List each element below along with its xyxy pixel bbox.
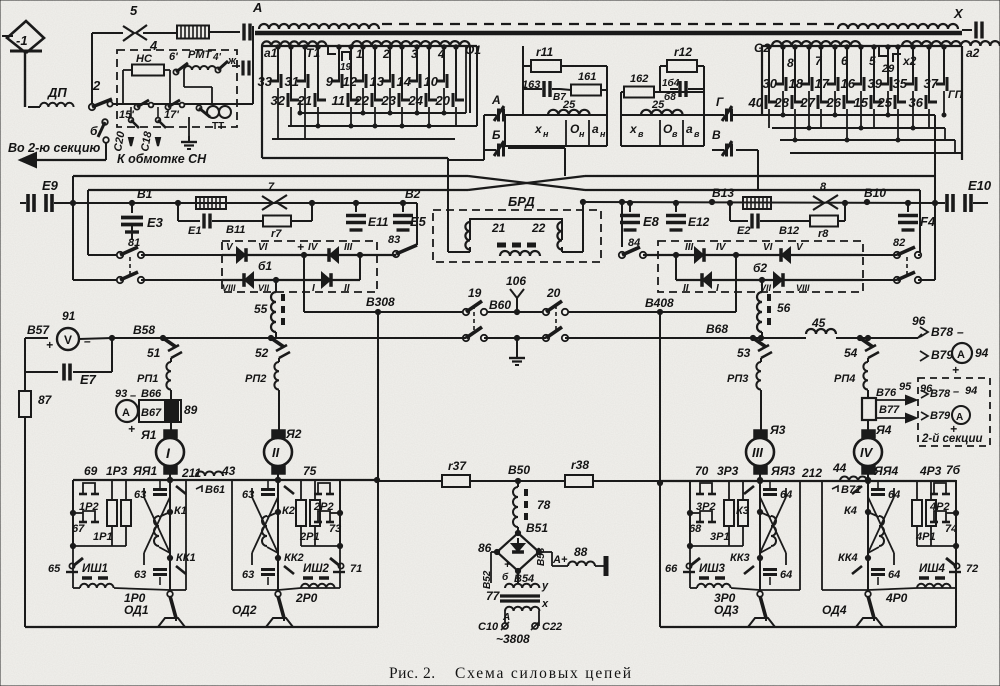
- svg-text:б1: б1: [258, 259, 272, 273]
- motor III brush bottom: [754, 466, 767, 474]
- svg-text:~3808: ~3808: [496, 632, 530, 646]
- mid line right В13-В10: [583, 202, 935, 203]
- winding х2-а2 coil: [902, 41, 1000, 46]
- svg-text:ОД3: ОД3: [714, 603, 739, 617]
- crossing wires center: [468, 176, 585, 190]
- svg-text:1Р3: 1Р3: [106, 464, 128, 478]
- svg-text:53: 53: [737, 346, 751, 360]
- switch 82 lower: [894, 277, 900, 283]
- switch 81 lower: [117, 277, 123, 283]
- diode IV-III: [330, 248, 338, 262]
- svg-text:54: 54: [844, 346, 858, 360]
- svg-text:1б4: 1б4: [662, 77, 680, 89]
- svg-text:КК4: КК4: [838, 552, 858, 564]
- wire bus to 81 lower: [73, 279, 117, 281]
- svg-text:Схема силовых цепей: Схема силовых цепей: [455, 665, 633, 682]
- wire В308 down: [377, 312, 379, 480]
- transformer 77 core: [500, 594, 540, 597]
- svg-text:93: 93: [115, 388, 127, 400]
- svg-text:7: 7: [268, 181, 275, 193]
- svg-text:В68: В68: [706, 322, 728, 336]
- svg-text:83: 83: [388, 234, 400, 246]
- svg-text:К3: К3: [736, 505, 749, 517]
- wire to A capacitor: [209, 31, 240, 33]
- svg-text:106: 106: [506, 274, 526, 288]
- inductor ДП: [28, 106, 40, 108]
- arrow В76: [876, 399, 916, 401]
- svg-text:ИШ4: ИШ4: [919, 563, 946, 575]
- svg-text:63: 63: [242, 489, 254, 501]
- wire switch В to bus right: [736, 149, 758, 151]
- dashed core 56: [767, 294, 771, 330]
- tap column 17/27: [834, 46, 836, 84]
- svg-text:20: 20: [435, 93, 451, 108]
- group 3 hook top: [700, 483, 712, 494]
- bus line second right: [585, 189, 920, 191]
- resistor (hatched) in 5-4 branch: [177, 26, 209, 39]
- svg-text:17: 17: [815, 76, 830, 91]
- tap collector lines: [300, 112, 466, 114]
- svg-text:В79: В79: [931, 348, 953, 362]
- svg-text:37: 37: [924, 76, 939, 91]
- bus trapezoid ОД1: [158, 618, 185, 627]
- svg-text:2-й секции: 2-й секции: [921, 433, 983, 445]
- switch 2: [89, 104, 95, 110]
- switch 53: [750, 335, 755, 340]
- right tap drops: [782, 91, 784, 115]
- svg-text:РП2: РП2: [245, 373, 266, 385]
- svg-text:11: 11: [332, 93, 346, 108]
- switch 72: [954, 563, 959, 568]
- group 2 coil К: [262, 516, 267, 546]
- svg-text:9: 9: [326, 74, 334, 89]
- svg-text:ЯЯ3: ЯЯ3: [770, 464, 795, 478]
- switch 52: [268, 335, 273, 340]
- svg-text:VI: VI: [763, 242, 773, 253]
- svg-text:Я4: Я4: [875, 423, 892, 437]
- svg-text:В58: В58: [133, 323, 155, 337]
- svg-text:r11: r11: [536, 45, 553, 59]
- svg-text:II: II: [272, 445, 280, 460]
- wire r12 down: [703, 66, 705, 115]
- tap column 33/32: [277, 46, 279, 81]
- node Б1 right: [357, 252, 362, 257]
- wire РП3 to Я3: [760, 390, 762, 432]
- arrester 8: [813, 196, 824, 210]
- svg-text:III: III: [752, 445, 763, 460]
- inductor 45: [761, 337, 806, 339]
- svg-text:r37: r37: [448, 459, 467, 473]
- winding 1-2-3-4 coil: [352, 41, 470, 46]
- svg-text:71: 71: [350, 563, 362, 575]
- svg-text:В10: В10: [864, 186, 886, 200]
- group 4 contact hook: [934, 511, 946, 522]
- ammeter В67 box: [139, 400, 181, 422]
- ammeter А box: [952, 406, 970, 424]
- svg-text:В51: В51: [526, 521, 548, 535]
- svg-text:К1: К1: [174, 505, 187, 517]
- svg-text:2: 2: [92, 78, 101, 93]
- svg-text:А: А: [252, 0, 262, 15]
- svg-text:А: А: [491, 93, 501, 107]
- shunt 89 dark: [165, 401, 178, 421]
- svg-text:х: х: [534, 122, 543, 136]
- group box 2 outer edge: [339, 480, 341, 546]
- svg-text:А: А: [956, 412, 963, 423]
- group 3 coil К: [771, 516, 776, 546]
- svg-text:х2: х2: [902, 54, 917, 68]
- ground В60: [516, 352, 518, 358]
- wire main through box: [112, 103, 253, 105]
- switch 54: [857, 335, 862, 340]
- upper switch bus y312: [304, 311, 466, 313]
- svg-text:ЯЯ4: ЯЯ4: [873, 464, 898, 478]
- БРД left winding 21: [465, 222, 470, 250]
- svg-text:н: н: [543, 129, 549, 139]
- coil РП1: [170, 358, 172, 362]
- wire top to r11: [522, 46, 524, 115]
- node + Б1: [301, 252, 306, 257]
- svg-text:В50: В50: [508, 463, 530, 477]
- capacitor F4: [905, 200, 910, 205]
- node БРД right: [619, 199, 624, 204]
- svg-text:В1: В1: [137, 187, 153, 201]
- diode V-VI: [237, 248, 245, 262]
- svg-text:3Р2: 3Р2: [696, 501, 716, 513]
- svg-text:69: 69: [84, 464, 98, 478]
- diode VIII-VII: [245, 273, 253, 287]
- link 20 dashed: [555, 305, 557, 333]
- wire r11 right down: [606, 66, 608, 115]
- svg-text:8: 8: [787, 56, 794, 70]
- wire БРД drop left: [582, 202, 584, 225]
- group 3 cross wires: [760, 497, 786, 553]
- svg-text:Я2: Я2: [285, 427, 302, 441]
- svg-text:у: у: [541, 580, 549, 592]
- resistor r8: [760, 220, 810, 222]
- disconnector 5-4: [92, 32, 123, 34]
- svg-text:+: +: [952, 363, 959, 377]
- wire Б2 plus down: [735, 255, 737, 312]
- tap column 14/24: [416, 46, 418, 81]
- switch 84: [619, 252, 625, 258]
- hatched resistor on В1 line: [196, 197, 226, 209]
- group box 3 outer edge: [689, 480, 691, 546]
- coil РМТ: [184, 66, 216, 70]
- wire В308 lower: [377, 480, 379, 627]
- svg-text:12: 12: [343, 74, 358, 89]
- switch 81 upper: [117, 252, 123, 258]
- svg-text:Х: Х: [953, 6, 964, 21]
- switch 66: [686, 563, 691, 568]
- svg-text:КК2: КК2: [284, 552, 304, 564]
- svg-text:а2: а2: [966, 46, 980, 60]
- tap column 9/11: [338, 46, 340, 81]
- svg-text:56: 56: [777, 301, 791, 315]
- capacitor С18: [157, 107, 159, 117]
- svg-text:Б: Б: [492, 128, 501, 142]
- resistor r37: [442, 475, 470, 487]
- svg-text:н: н: [600, 129, 606, 139]
- svg-text:2Р1: 2Р1: [299, 531, 320, 543]
- svg-text:IV: IV: [716, 242, 727, 253]
- svg-text:6': 6': [169, 51, 178, 63]
- right verticals from bus: [934, 176, 936, 280]
- resistor 87: [24, 372, 26, 391]
- svg-text:4Р3: 4Р3: [919, 464, 942, 478]
- svg-text:96: 96: [912, 314, 926, 328]
- svg-text:64: 64: [888, 489, 900, 501]
- ammeter А 94 upper: [952, 343, 972, 363]
- svg-text:r38: r38: [571, 458, 589, 472]
- node В2: [309, 200, 314, 205]
- bus trapezoid ОД4: [856, 618, 883, 627]
- motor III brush top: [754, 430, 767, 438]
- transformer 77 lower winding: [505, 607, 539, 611]
- switch Б: [102, 119, 108, 125]
- svg-text:87: 87: [38, 393, 53, 407]
- svg-text:II: II: [683, 283, 689, 294]
- svg-text:4': 4': [212, 52, 222, 63]
- transformer ТТ: [207, 106, 219, 118]
- node В408: [657, 309, 662, 314]
- contact 4': [215, 67, 220, 72]
- dashed core 78: [524, 489, 528, 523]
- capacitor Е1 branch: [177, 203, 179, 221]
- svg-text:ОД1: ОД1: [124, 603, 149, 617]
- svg-text:r7: r7: [271, 228, 282, 240]
- switch 51: [160, 335, 165, 340]
- svg-text:24: 24: [408, 93, 424, 108]
- capacitor Е11: [353, 200, 358, 205]
- svg-text:7б: 7б: [946, 463, 961, 477]
- arrow В79 box: [921, 412, 928, 420]
- svg-text:в: в: [638, 129, 644, 139]
- terminal С10: [502, 623, 508, 629]
- svg-text:б: б: [502, 571, 509, 583]
- svg-text:В66: В66: [141, 388, 162, 400]
- Б1 bottom rail: [222, 279, 360, 281]
- wire bridge right: [539, 551, 556, 553]
- capacitor at A: [242, 24, 245, 41]
- svg-text:89: 89: [184, 403, 198, 417]
- svg-text:ГП: ГП: [948, 89, 964, 101]
- node 54: [865, 335, 870, 340]
- svg-text:10: 10: [424, 74, 439, 89]
- svg-text:В2: В2: [405, 187, 421, 201]
- svg-text:5: 5: [130, 3, 138, 18]
- left group top bus: [73, 479, 377, 481]
- group 2 hook top: [318, 483, 330, 494]
- group 1 cap bottom: [153, 568, 167, 571]
- svg-text:4Р2: 4Р2: [929, 501, 950, 513]
- Б2 top rail: [643, 254, 863, 256]
- svg-text:1Р2: 1Р2: [79, 501, 99, 513]
- inductor 43: [196, 472, 223, 477]
- svg-text:162: 162: [630, 73, 648, 85]
- svg-text:В57: В57: [27, 323, 50, 337]
- БРД core dashes: [497, 243, 541, 248]
- primary coil bumps left: [259, 24, 379, 29]
- switch 65: [69, 563, 74, 568]
- svg-text:В77: В77: [879, 404, 900, 416]
- svg-text:Е2: Е2: [737, 225, 750, 237]
- tap column 13/23: [389, 46, 391, 81]
- svg-text:х: х: [541, 598, 549, 610]
- ground: [188, 136, 190, 142]
- inductor 78: [517, 481, 519, 487]
- wire pantograph down: [24, 51, 26, 107]
- svg-text:I: I: [312, 283, 315, 294]
- group 2 resistors: [296, 500, 306, 526]
- svg-text:В61: В61: [205, 484, 225, 496]
- coil РП2: [278, 358, 280, 362]
- dashed core 55: [281, 294, 285, 330]
- svg-text:r12: r12: [674, 45, 692, 59]
- svg-text:БРД: БРД: [508, 194, 535, 209]
- bus trapezoid ОД2: [266, 618, 293, 627]
- svg-text:РП3: РП3: [727, 373, 748, 385]
- svg-text:36: 36: [909, 95, 924, 110]
- svg-text:IV: IV: [308, 242, 319, 253]
- svg-text:27: 27: [800, 95, 816, 110]
- node Б2 bottom: [759, 277, 764, 282]
- terminal С22: [532, 623, 538, 629]
- resistor r11: [531, 60, 561, 72]
- resistor НС: [132, 65, 164, 76]
- svg-text:VIII: VIII: [796, 283, 810, 293]
- group 3 resistors: [724, 500, 734, 526]
- bridge diode: [512, 544, 524, 551]
- bottom rail 3: [760, 589, 800, 591]
- svg-text:V: V: [64, 333, 72, 347]
- capacitor Е5: [400, 200, 405, 205]
- group 1 coil К: [154, 516, 159, 546]
- bottom rail 1: [170, 589, 186, 591]
- svg-text:а: а: [686, 122, 693, 136]
- svg-text:78: 78: [537, 498, 551, 512]
- primary dashed line middle: [382, 23, 838, 25]
- tap 19 hooks: [328, 46, 336, 54]
- svg-text:В12: В12: [779, 225, 799, 237]
- capacitor Е10 pair: [945, 194, 949, 212]
- bottom rail 2: [232, 589, 278, 591]
- motor I brush bottom: [164, 466, 177, 474]
- svg-text:Г: Г: [716, 95, 724, 109]
- tap column 18/28: [808, 46, 810, 84]
- svg-text:б2: б2: [753, 261, 767, 275]
- svg-text:ИШ3: ИШ3: [699, 563, 726, 575]
- svg-text:А: А: [957, 349, 965, 361]
- bus В58 to 51: [112, 337, 466, 339]
- svg-text:Е3: Е3: [147, 215, 164, 230]
- svg-text:ОД2: ОД2: [232, 603, 257, 617]
- svg-text:В408: В408: [645, 296, 674, 310]
- inductor 88: [568, 562, 595, 567]
- wire В408 lower: [659, 483, 661, 627]
- svg-text:22: 22: [354, 93, 370, 108]
- node bridge bottom: [515, 568, 520, 573]
- capacitor Е12: [673, 200, 678, 205]
- capacitor Е2 branch: [729, 203, 731, 221]
- bus 20 to 53: [565, 337, 761, 339]
- group 4 resistors: [912, 500, 922, 526]
- arrow В78 box: [921, 390, 928, 398]
- svg-text:+: +: [297, 240, 304, 254]
- inductor 55: [275, 280, 277, 292]
- svg-text:70: 70: [695, 464, 709, 478]
- left block winding baseline: [262, 45, 477, 47]
- svg-text:А+: А+: [552, 554, 568, 566]
- svg-text:Я1: Я1: [140, 428, 157, 442]
- capacitor at X: [962, 29, 972, 31]
- group 4 cross wires: [868, 497, 894, 553]
- mid line В1-В2: [73, 202, 417, 204]
- label В71: [832, 486, 838, 492]
- arrow В78 upper: [920, 327, 928, 337]
- hatched resistor on В13 line: [743, 197, 771, 209]
- diode I-II: [322, 273, 330, 287]
- group 1 resistors: [107, 500, 117, 526]
- svg-text:19: 19: [340, 62, 352, 73]
- node В1: [129, 200, 134, 205]
- svg-text:В60: В60: [489, 298, 511, 312]
- group 2 cap top: [261, 488, 275, 491]
- capacitor Е8: [627, 200, 632, 205]
- svg-text:68: 68: [689, 523, 702, 535]
- svg-text:17': 17': [164, 109, 179, 121]
- contact 15': [134, 104, 139, 109]
- svg-text:63: 63: [134, 569, 146, 581]
- svg-text:VI: VI: [258, 242, 268, 253]
- svg-text:28: 28: [774, 95, 790, 110]
- antenna 106: [516, 298, 518, 312]
- svg-text:63: 63: [134, 489, 146, 501]
- diode III-IV right: [695, 248, 703, 262]
- group 4 cap top: [871, 488, 885, 491]
- svg-text:3Р1: 3Р1: [710, 531, 730, 543]
- svg-text:А: А: [122, 407, 130, 419]
- node 53: [758, 335, 763, 340]
- voltmeter В57: [57, 328, 79, 350]
- dashed box 2nd section: [918, 378, 990, 446]
- svg-text:66: 66: [665, 563, 678, 575]
- group 1 motor chain: [169, 480, 171, 590]
- tap column 10/20: [443, 46, 445, 81]
- svg-text:–: –: [953, 386, 959, 398]
- coil РП3: [760, 358, 762, 362]
- svg-text:К2: К2: [282, 505, 295, 517]
- bus segment between 19 and 20 lower: [484, 337, 546, 339]
- wire branch up to 5: [91, 33, 93, 104]
- svg-text:43: 43: [221, 464, 236, 478]
- contact 6': [173, 69, 178, 74]
- group 1 cross wires: [144, 497, 170, 553]
- svg-text:94: 94: [975, 346, 989, 360]
- wire РП4 to Я4: [867, 390, 869, 398]
- transformer 77 upper winding: [505, 584, 539, 588]
- tap column 30/40: [782, 46, 784, 84]
- svg-text:94: 94: [965, 385, 977, 397]
- primary winding line: [255, 31, 962, 35]
- svg-text:В13: В13: [712, 186, 734, 200]
- svg-text:Рис. 2.: Рис. 2.: [389, 665, 436, 682]
- svg-text:72: 72: [966, 563, 978, 575]
- svg-text:Е11: Е11: [368, 215, 389, 229]
- node Б1 bottom: [273, 277, 278, 282]
- svg-text:13: 13: [370, 74, 385, 89]
- right block outline: [761, 46, 763, 115]
